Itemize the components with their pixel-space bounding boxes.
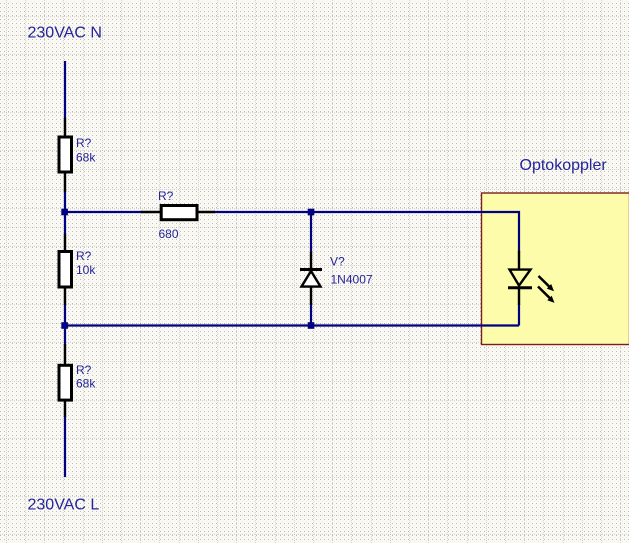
svg-text:230VAC L: 230VAC L [28, 497, 100, 514]
svg-text:68k: 68k [76, 377, 96, 391]
svg-text:10k: 10k [76, 263, 96, 277]
svg-text:V?: V? [330, 255, 345, 269]
svg-text:680: 680 [159, 227, 179, 241]
svg-text:R?: R? [76, 363, 92, 377]
svg-text:68k: 68k [76, 150, 96, 164]
svg-text:R?: R? [158, 189, 174, 203]
svg-text:230VAC N: 230VAC N [28, 25, 102, 42]
svg-text:R?: R? [76, 136, 92, 150]
svg-text:Optokoppler: Optokoppler [520, 157, 608, 174]
svg-text:1N4007: 1N4007 [331, 273, 373, 287]
svg-text:R?: R? [76, 249, 92, 263]
